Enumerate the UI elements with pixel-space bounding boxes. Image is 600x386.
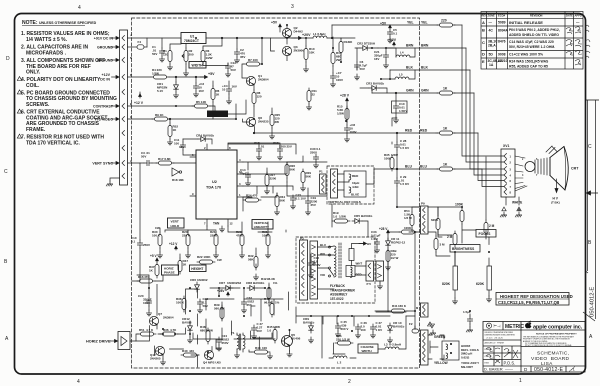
resistor 620K [436, 216, 440, 232]
svg-text:157-0022: 157-0022 [330, 297, 344, 301]
capacitor C19 [305, 198, 310, 206]
connector P9 [421, 206, 429, 234]
svg-text:+20V: +20V [302, 33, 311, 37]
diode CR3 [369, 86, 379, 91]
svg-text:56K: 56K [280, 199, 286, 203]
svg-text:L4: L4 [400, 51, 404, 55]
signature scribbles in title block [486, 348, 518, 364]
svg-text:78M24CT: 78M24CT [184, 39, 200, 43]
svg-text:DATE: DATE [566, 14, 573, 18]
svg-text:50V, R23+45 WERE 1.2 OHM.: 50V, R23+45 WERE 1.2 OHM. [509, 45, 555, 49]
wire U2 to vert coils [243, 162, 327, 211]
svg-text:TDA 170: TDA 170 [206, 186, 221, 190]
svg-text:4.7 K: 4.7 K [146, 328, 154, 332]
wire junction dots [148, 24, 490, 353]
svg-text:TTL VIDEO: TTL VIDEO [94, 118, 113, 122]
connector P4 [331, 169, 338, 198]
+12V rail from connector [128, 76, 205, 78]
resistor R20 [186, 232, 190, 248]
svg-text:22: 22 [312, 93, 316, 97]
capacitor C1 [159, 48, 164, 56]
svg-text:R44: R44 [255, 346, 261, 350]
contrast wire [128, 105, 195, 107]
svg-text:50V: 50V [257, 329, 262, 333]
resistor R43 [270, 301, 274, 317]
svg-text:NOTICE OF PROPRIETARY PROPERTY: NOTICE OF PROPRIETARY PROPERTY [536, 333, 577, 336]
ttl video wire [128, 104, 237, 119]
svg-text:RED: RED [356, 273, 362, 277]
diode CR8 [247, 286, 257, 291]
svg-text:+5V: +5V [208, 72, 215, 76]
svg-text:50V: 50V [141, 155, 146, 159]
svg-text:4.7K: 4.7K [170, 328, 177, 332]
U2 pin stubs [190, 144, 243, 226]
spark gap [428, 322, 435, 328]
inductor L4 [396, 55, 410, 57]
svg-text:WIDTH: WIDTH [192, 63, 204, 67]
svg-text:ONLY.: ONLY. [26, 70, 41, 76]
svg-text:1 KV: 1 KV [371, 237, 378, 241]
svg-text:F2: F2 [409, 322, 413, 326]
svg-text:⊢⊣: ⊢⊣ [494, 324, 501, 329]
resistor R3 [201, 48, 205, 64]
svg-text:0.1: 0.1 [393, 32, 398, 36]
svg-text:16V: 16V [374, 57, 379, 61]
resistor R8 [252, 90, 256, 106]
svg-text:+28 V: +28 V [340, 94, 350, 98]
resistor 100K focus [460, 208, 464, 224]
connector P5 pair [366, 261, 384, 281]
highest ref designation box [496, 293, 573, 306]
fuse F2 [412, 326, 419, 333]
svg-text:RGP02-12: RGP02-12 [391, 241, 406, 245]
capacitor C3 [144, 160, 152, 165]
capacitor C32 [241, 299, 246, 307]
svg-text:R9 1K: R9 1K [155, 113, 164, 117]
svg-text:ECO#: ECO# [498, 14, 506, 18]
CONTRAST control box [207, 111, 228, 118]
svg-text:2: 2 [348, 379, 351, 385]
svg-text:COIL.: COIL. [26, 83, 40, 89]
fuse F4 [128, 38, 148, 49]
wires vert coil area [366, 118, 420, 207]
svg-text:——: —— [505, 367, 513, 372]
svg-text:25V: 25V [311, 203, 316, 207]
resistor R5 [192, 104, 210, 108]
svg-text:BLU: BLU [405, 165, 413, 169]
svg-text:16V: 16V [199, 89, 204, 93]
wires under U2 pins [165, 226, 286, 232]
svg-text:L5: L5 [399, 73, 403, 77]
svg-text:1K: 1K [443, 87, 448, 91]
capacitor C5 [387, 29, 392, 37]
svg-text:R55, ADDED CAP TO R5: R55, ADDED CAP TO R5 [509, 64, 548, 68]
svg-text:E: E [482, 59, 485, 64]
svg-text:12: 12 [230, 222, 234, 226]
svg-text:SCHEMATIC,: SCHEMATIC, [537, 351, 569, 357]
ground pin letters [130, 33, 133, 163]
svg-text:5.1V: 5.1V [157, 89, 163, 93]
svg-text:1.5KV: 1.5KV [399, 109, 407, 113]
svg-text:L1 6.8µH: L1 6.8µH [313, 32, 325, 36]
svg-text:R51: R51 [139, 328, 145, 332]
title block [483, 322, 585, 373]
resistor R36 [160, 332, 178, 336]
svg-text:FRAME.: FRAME. [26, 127, 46, 133]
capacitor C21 [383, 52, 388, 60]
capacitor C26 [355, 324, 360, 332]
svg-text:DC IN: DC IN [100, 78, 110, 82]
vert sync input [128, 162, 197, 164]
svg-text:2 M: 2 M [447, 235, 453, 239]
svg-text:RED: RED [420, 129, 428, 133]
svg-text:1/2W: 1/2W [273, 325, 280, 329]
svg-text:PIN 5 WAS PIN 2, ADDED PH12,: PIN 5 WAS PIN 2, ADDED PH12, [509, 28, 560, 32]
capacitor C17 [256, 146, 261, 154]
svg-text:16V: 16V [179, 145, 184, 149]
svg-text:8094A: 8094A [498, 29, 509, 33]
transistor Q1 [246, 76, 255, 85]
resistor R47 [178, 258, 182, 274]
resistor R13 [339, 39, 343, 55]
svg-text:C: C [588, 144, 592, 150]
capacitor C31 [370, 324, 375, 332]
svg-text:4.6Ω: 4.6Ω [352, 185, 359, 189]
capacitor C27 [251, 325, 256, 333]
resistor R24 [243, 198, 261, 202]
svg-text:120: 120 [257, 95, 262, 99]
CRT gun electrodes [535, 158, 550, 176]
svg-text:1A: 1A [489, 63, 494, 67]
svg-text:100: 100 [262, 346, 267, 350]
+20V arrow label [294, 37, 302, 40]
resistor R19 [332, 219, 350, 223]
resistor 1K line RED [437, 131, 455, 135]
connector P2 [421, 330, 429, 365]
HV label arrow [359, 242, 367, 245]
svg-text:3 M: 3 M [440, 243, 446, 247]
flyback HV resistor [349, 244, 364, 266]
svg-text:R24 WAS 150Ω,(R5 WAS: R24 WAS 150Ω,(R5 WAS [509, 60, 549, 64]
svg-text:A: A [482, 20, 485, 25]
svg-text:2N3904: 2N3904 [163, 316, 174, 320]
svg-text:U2: U2 [212, 180, 217, 184]
svg-text:1%: 1% [275, 301, 280, 305]
svg-text:600 V: 600 V [341, 327, 349, 331]
inductor L5 [395, 77, 409, 79]
svg-text:RED: RED [352, 174, 359, 178]
+12V arrow vert [175, 246, 178, 250]
svg-text:1K: 1K [443, 163, 448, 167]
svg-text:.01: .01 [260, 145, 265, 149]
focus network wire [428, 157, 486, 243]
svg-text:9008: 9008 [498, 53, 506, 57]
resistor R11 [307, 88, 311, 104]
resistor 620K tall [487, 258, 492, 296]
flyback core [339, 243, 341, 278]
svg-text:MPS U05: MPS U05 [208, 361, 221, 365]
approval scribbles [566, 25, 590, 65]
svg-text:1.5 KV: 1.5 KV [400, 182, 409, 186]
+20V rail from U1 [206, 37, 296, 39]
svg-text:RED: RED [405, 129, 413, 133]
wire +91V to U1 [128, 37, 182, 39]
svg-text:1/2W: 1/2W [339, 215, 346, 219]
capacitor C20 [146, 298, 151, 306]
capacitor C12 [225, 63, 230, 71]
potentiometer R2 [184, 48, 188, 64]
yoke horiz coils [442, 341, 459, 360]
svg-text:160 K: 160 K [398, 304, 407, 308]
note flag triangles [17, 77, 21, 139]
svg-text:HORIZ DRIVE: HORIZ DRIVE [86, 340, 111, 344]
flyback primary winding [318, 246, 337, 289]
svg-text:1N4002S2: 1N4002S2 [227, 281, 242, 285]
svg-text:P 5: P 5 [367, 282, 372, 286]
connector P2 upper [421, 303, 429, 317]
svg-text:1%: 1% [273, 281, 278, 285]
CRT coating hatch ground [546, 146, 557, 154]
svg-text:P: P [130, 73, 132, 77]
svg-text:1/2W: 1/2W [337, 112, 344, 116]
svg-text:HOLD: HOLD [171, 224, 181, 228]
svg-text:P.O.S.: P.O.S. [504, 361, 516, 366]
svg-text:YELLOW: YELLOW [434, 361, 448, 365]
svg-text:BLU: BLU [320, 243, 326, 247]
svg-text:REVISION: REVISION [530, 14, 543, 18]
BRIGHTNESS box [450, 245, 480, 253]
transistor Q6 [246, 117, 255, 126]
capacitor C13 [277, 146, 282, 154]
svg-text:B: B [482, 28, 485, 33]
board boundary dashed outline [132, 18, 420, 368]
svg-text:1/2 W: 1/2 W [404, 216, 412, 220]
svg-text:CONTRAST: CONTRAST [209, 112, 226, 116]
diode CR6 [195, 282, 200, 292]
resistor R32 [254, 254, 258, 270]
svg-text:LINEARITY: LINEARITY [254, 225, 269, 229]
svg-text:680: 680 [200, 329, 205, 333]
resistor R52 [168, 123, 172, 139]
svg-text:0.1: 0.1 [131, 240, 136, 244]
resistor 1K line GRN [437, 91, 455, 95]
wire BLU [397, 169, 504, 187]
svg-text:ENG: ENG [485, 363, 490, 365]
svg-text:C1+C2 WAS 100V 5%: C1+C2 WAS 100V 5% [509, 53, 543, 57]
diode CR9 [309, 323, 314, 333]
svg-text:Q7: Q7 [158, 312, 162, 316]
svg-text:FOCUS: FOCUS [479, 232, 492, 236]
svg-text:0.62Ω: 0.62Ω [461, 355, 470, 359]
svg-text:BAV91b: BAV91b [361, 214, 372, 218]
svg-text:16V: 16V [232, 85, 237, 89]
diode CR5 [352, 219, 362, 224]
svg-text:620K: 620K [431, 218, 439, 222]
capacitor C2 [234, 49, 239, 57]
svg-text:440: 440 [189, 349, 194, 353]
svg-text:L 2: L 2 [337, 361, 342, 365]
resistor R9 [152, 117, 170, 121]
brightness wire down [455, 237, 489, 266]
svg-text:C: C [4, 169, 8, 175]
svg-text:(T BK): (T BK) [551, 201, 560, 205]
svg-text:R16: R16 [138, 275, 144, 279]
diode CR4 [198, 137, 208, 142]
svg-text:CR2 DT230H: CR2 DT230H [357, 42, 375, 46]
svg-text:WHITE: WHITE [512, 201, 522, 205]
TAB box [213, 222, 225, 232]
svg-text:GROUND: GROUND [97, 46, 113, 50]
resistor 2M a [484, 220, 488, 236]
svg-text:BRN: BRN [406, 44, 414, 48]
vert feedback wires right of U2 [243, 156, 303, 197]
resistor R42 [267, 285, 271, 301]
resistor R38 [182, 296, 186, 312]
WHITE lead and arc gap [506, 197, 519, 205]
wires horiz section [132, 275, 289, 367]
svg-text:GRN: GRN [421, 89, 429, 93]
svg-text:96.4K: 96.4K [264, 301, 273, 305]
diode CR12 [188, 323, 193, 333]
svg-text:CRT: CRT [571, 167, 579, 171]
IC U2 TDA1170 [196, 150, 237, 219]
WIDTH adjust box [189, 62, 206, 69]
svg-text:1.0: 1.0 [267, 329, 272, 333]
+5V arrow vert [156, 258, 159, 262]
svg-text:LISA: LISA [541, 361, 553, 367]
svg-text:M9-000T: M9-000T [461, 365, 473, 369]
svg-text:L3: L3 [384, 343, 388, 347]
svg-text:4C: 4C [489, 29, 494, 33]
capacitor C10 boxed [392, 101, 408, 113]
inductor L1 [313, 36, 327, 38]
capacitor C9 [193, 83, 198, 91]
svg-text:1N4002: 1N4002 [197, 278, 208, 282]
svg-text:R42: R42 [261, 277, 267, 281]
svg-text:D: D [482, 52, 485, 57]
connector P1 [120, 30, 128, 185]
resistor R25 [270, 112, 274, 128]
diode CR11 [386, 238, 391, 248]
resistor R23 [240, 232, 244, 248]
resistor R51 [138, 332, 156, 336]
transistor Q3 [282, 46, 291, 55]
svg-text:SCREWS.: SCREWS. [26, 102, 50, 108]
resistor R37 [155, 262, 159, 278]
svg-text:CR6: CR6 [190, 278, 196, 282]
svg-text:8476: 8476 [498, 40, 506, 44]
yoke vertical coils [338, 171, 367, 197]
svg-text:P9: P9 [421, 202, 425, 206]
resistor 1K line BLU [437, 167, 455, 171]
svg-text:620K: 620K [476, 282, 485, 286]
svg-text:DRAWN: DRAWN [485, 348, 493, 351]
svg-text:(2) NOT TO REPRODUCE OR COPY I: (2) NOT TO REPRODUCE OR COPY IT (3) NOT … [525, 344, 572, 347]
transformer T1 [237, 333, 245, 352]
svg-text:BAV91b: BAV91b [393, 325, 404, 329]
svg-text:050-4012-E: 050-4012-E [534, 367, 563, 373]
svg-text:560: 560 [214, 307, 219, 311]
svg-text:R17 6.8K: R17 6.8K [158, 157, 172, 161]
svg-text:100K: 100K [404, 226, 412, 230]
svg-text:50V: 50V [203, 304, 208, 308]
svg-text:R22 100K: R22 100K [197, 255, 211, 259]
revision table [481, 12, 583, 70]
resistor R31 [266, 232, 270, 248]
svg-text:0.1 10V: 0.1 10V [296, 197, 306, 201]
FOCUS box [476, 230, 496, 238]
resistor R10 [304, 46, 308, 62]
svg-text:1/2 W: 1/2 W [391, 256, 399, 260]
svg-text:BLK: BLK [421, 66, 429, 70]
svg-text:+12 V: +12 V [169, 242, 178, 246]
transistor Q5 [282, 336, 293, 347]
connector P3 mate [310, 241, 318, 299]
resistor R4 [151, 75, 169, 79]
capacitor C6 [354, 62, 359, 70]
svg-text:BU406: BU406 [291, 337, 301, 341]
svg-text:+28V: +28V [217, 289, 225, 293]
svg-text:120: 120 [163, 53, 168, 57]
capacitor C29 [394, 178, 399, 186]
resistor R40 [181, 353, 199, 357]
HORIZ PHASE box [162, 265, 179, 275]
svg-text:35V: 35V [240, 55, 245, 59]
svg-text:Q4: Q4 [203, 361, 207, 365]
svg-text:HEIGHT: HEIGHT [191, 267, 203, 271]
svg-text:100K: 100K [455, 203, 464, 207]
svg-text:R5 14K: R5 14K [196, 100, 207, 104]
svg-text:100V: 100V [336, 78, 343, 82]
resistor 820K tall [453, 252, 458, 298]
wire BLK [390, 70, 504, 169]
HEIGHT box [190, 265, 207, 272]
svg-text:4: 4 [77, 379, 80, 385]
wires above U2 [228, 143, 296, 154]
resistor R34 [275, 193, 279, 209]
svg-text:1: 1 [519, 378, 522, 384]
svg-text:ANGLES ±1° FINISH: ANGLES ±1° FINISH [485, 342, 505, 345]
capacitor C28 [394, 142, 399, 150]
resistor R44 [252, 350, 270, 354]
svg-text:D: D [6, 56, 10, 62]
svg-text:2200: 2200 [270, 177, 277, 181]
svg-text:100: 100 [361, 328, 366, 332]
wire YEL [332, 25, 504, 156]
resistor R50 [386, 248, 390, 264]
svg-text:100V: 100V [143, 301, 150, 305]
svg-text:REV: REV [482, 14, 488, 18]
svg-text:YEL: YEL [407, 21, 414, 25]
svg-text:2N4235: 2N4235 [258, 120, 269, 124]
capacitor C10 [137, 240, 142, 248]
svg-text:2B,A: 2B,A [488, 44, 496, 48]
svg-text:470K: 470K [236, 234, 244, 238]
flyback sec winding box [346, 266, 355, 278]
svg-text:APPD: APPD [575, 14, 582, 18]
svg-text:1.5 KV: 1.5 KV [400, 146, 409, 150]
svg-text:CR4 BAV91b: CR4 BAV91b [196, 134, 214, 138]
svg-text:56K: 56K [248, 258, 254, 262]
resistor R14 [331, 50, 335, 66]
notes block [21, 20, 117, 146]
vertical feed wire [414, 233, 416, 311]
metric cell [486, 323, 491, 328]
capacitor C16 [308, 260, 313, 268]
svg-text:250V: 250V [310, 151, 317, 155]
svg-text:250V: 250V [143, 243, 150, 247]
svg-text:50V: 50V [231, 68, 236, 72]
